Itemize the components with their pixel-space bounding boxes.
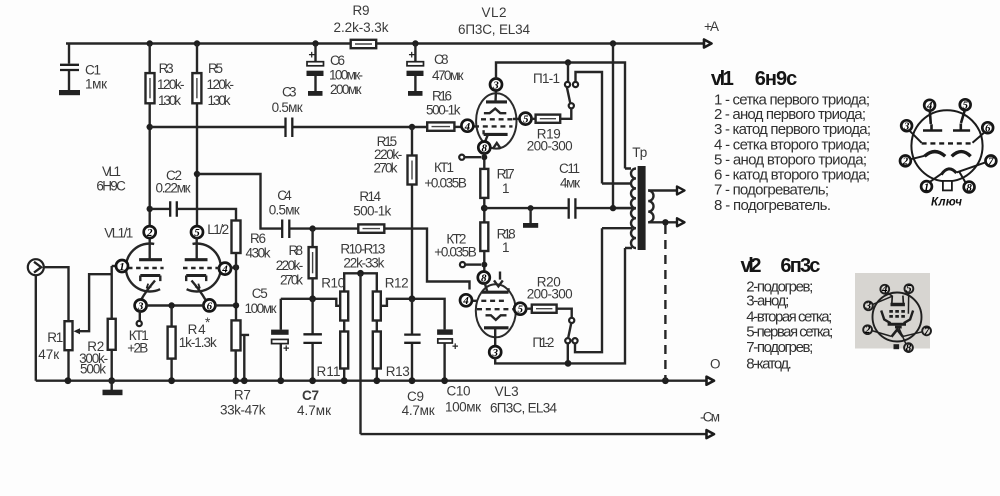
svg-text:130k: 130k (208, 93, 231, 108)
terminal -Cм (707, 430, 715, 438)
svg-text:4: 4 (462, 295, 469, 307)
VL2 cathode (484, 133, 508, 136)
svg-text:vl2: vl2 (741, 255, 762, 277)
svg-text:8: 8 (482, 142, 488, 154)
svg-text:vl1: vl1 (711, 68, 734, 90)
svg-text:7: 7 (988, 156, 994, 168)
svg-text:6Н9С: 6Н9С (96, 179, 126, 194)
pin 1 (VL1 grid 1) (116, 260, 128, 272)
input connector (28, 259, 44, 275)
node rail junction C7 (309, 377, 316, 384)
wire: R10-R11 junction (343, 321, 345, 332)
resistor R9 (351, 40, 377, 48)
node rail junction C9 (409, 377, 416, 384)
svg-text:6П3С, EL34: 6П3С, EL34 (458, 22, 530, 37)
svg-text:+: + (283, 343, 289, 355)
svg-text:270k: 270k (280, 273, 303, 288)
resistor R15 (411, 127, 413, 299)
svg-text:8-катод.: 8-катод. (746, 356, 792, 373)
VL1/2 anode (185, 258, 208, 261)
pin 2 (VL1 anode 1) (144, 226, 156, 238)
svg-text:120k-: 120k- (207, 77, 235, 92)
wire: anode tap to C4 (197, 174, 282, 229)
svg-text:1мк: 1мк (85, 77, 107, 92)
node: junction C8 top (412, 40, 418, 46)
node: junction R3 top (147, 40, 153, 46)
socket internals (923, 111, 942, 131)
VL3 heater (494, 272, 503, 287)
wire: C2 to R6 (177, 209, 236, 221)
node rail junction R7 (232, 377, 239, 384)
wire: pin4 to R6 column (231, 266, 236, 268)
svg-text:6: 6 (207, 300, 213, 312)
capacitor C8 (electrolytic) (414, 44, 416, 92)
svg-text:4мк: 4мк (560, 176, 580, 191)
pin 3 (VL3 anode) (489, 346, 501, 358)
socket pin 5 (960, 99, 971, 110)
svg-text:3: 3 (491, 347, 498, 359)
svg-text:500k: 500k (80, 362, 106, 377)
svg-text:R17: R17 (497, 167, 515, 182)
svg-text:Тр: Тр (632, 145, 647, 160)
VL3 control grid (473, 300, 507, 302)
test point KT2 (481, 262, 487, 268)
wire: secondary output bottom (648, 221, 677, 223)
resistor R16 (427, 122, 454, 130)
resistor R13 (373, 332, 381, 369)
resistor R14 (358, 224, 384, 232)
pin 4 (VL2 grid) (461, 120, 473, 132)
svg-text:R8: R8 (289, 243, 304, 258)
node rail junction C5 (277, 377, 284, 384)
svg-text:6п3с: 6п3с (780, 255, 820, 277)
node rail junction R4 (168, 377, 175, 384)
wire: input to R1 (44, 267, 69, 321)
svg-text:3: 3 (137, 300, 144, 312)
pin 8 (VL3 cathode) (478, 272, 490, 284)
node: junction R15 top (409, 124, 415, 130)
svg-text:*: * (205, 315, 211, 330)
socket diagram 6п3с (855, 273, 930, 349)
capacitor C6 (electrolytic) (314, 44, 316, 92)
svg-text:47к: 47к (38, 347, 59, 362)
svg-text:C7: C7 (302, 388, 319, 403)
node: junction П1-1 tap (565, 59, 571, 65)
VL1/1 grid (128, 267, 164, 269)
pin 5 (VL3 screen) (514, 303, 526, 315)
svg-text:R1: R1 (47, 330, 63, 345)
svg-text:КТ1: КТ1 (434, 160, 454, 175)
svg-text:C1: C1 (85, 63, 101, 78)
svg-text:O: O (710, 357, 721, 372)
svg-text:R5: R5 (208, 61, 223, 76)
socket2 connection leads (887, 293, 893, 296)
svg-text:-См: -См (700, 410, 720, 425)
svg-text:200-300: 200-300 (527, 139, 573, 154)
svg-text:4: 4 (221, 264, 228, 276)
svg-text:+: + (309, 50, 315, 62)
transformer core (638, 166, 646, 250)
svg-text:+A: +A (704, 19, 719, 34)
ground (below C1) (59, 90, 80, 95)
svg-text:100мк-: 100мк- (329, 68, 363, 83)
svg-text:R10: R10 (321, 276, 345, 291)
socket2 cathode (888, 323, 906, 326)
node: junction +A to primary center tap (610, 40, 616, 46)
svg-text:2.2k-3.3k: 2.2k-3.3k (334, 20, 389, 35)
transformer secondary (648, 191, 653, 223)
svg-text:33k-47k: 33k-47k (220, 403, 266, 418)
wire: pin3 to pin6 cathode bus (146, 304, 204, 306)
socket diagram 6н9с (900, 99, 996, 194)
wire: -Cм bias row (361, 433, 707, 435)
socket2 grids (889, 310, 905, 313)
socket2 anode (891, 303, 905, 307)
capacitor C4 (282, 220, 289, 239)
capacitor C11 (569, 198, 576, 219)
socket2 beam plates (881, 311, 890, 324)
wire: input sleeve to common rail (35, 275, 37, 381)
VL3 cathode (482, 291, 509, 294)
VL2 anode (486, 100, 507, 103)
svg-text:4: 4 (926, 100, 933, 112)
svg-text:1k-1.3k: 1k-1.3k (179, 335, 217, 350)
capacitor C3 (286, 118, 293, 138)
wire: secondary output top (648, 189, 677, 191)
switch П1-1 (567, 63, 569, 82)
svg-text:+: + (452, 341, 458, 353)
VL2 control grid (474, 125, 513, 127)
wire: R5 column down to VL1 pin5 (196, 44, 198, 227)
svg-text:VL2: VL2 (482, 5, 507, 20)
svg-text:R12: R12 (385, 276, 409, 291)
svg-text:8 - подогреватель.: 8 - подогреватель. (714, 197, 831, 214)
node: junction bias feed (357, 270, 364, 277)
VL2 suppressor grid (484, 109, 506, 114)
VL2 screen grid (481, 118, 513, 120)
wire: bias node row (right) (381, 299, 445, 330)
svg-text:430k: 430k (246, 246, 271, 261)
svg-text:4.7мк: 4.7мк (402, 403, 435, 418)
wire: +A top supply rail (66, 42, 704, 44)
svg-text:8: 8 (966, 182, 972, 194)
svg-text:100мк: 100мк (445, 400, 481, 415)
node: junction R8/C7/C5 (309, 295, 316, 302)
svg-text:5-первая сетка;: 5-первая сетка; (746, 324, 833, 341)
VL1/1 anode (139, 258, 162, 261)
svg-text:C8: C8 (434, 52, 449, 67)
triode VL1/1 envelope (126, 244, 160, 292)
wire: VL2 cathode to R17 (483, 153, 485, 169)
svg-text:L1/2: L1/2 (207, 222, 229, 237)
wire: R2 top to VL1 pin1 (112, 265, 117, 267)
svg-text:1: 1 (924, 181, 930, 193)
svg-text:8: 8 (906, 342, 912, 354)
svg-text:C3: C3 (282, 85, 297, 100)
node rail junction R7 tap (241, 377, 248, 384)
node: junction R8/C4/R14 (309, 225, 315, 231)
svg-text:500-1k: 500-1k (353, 204, 391, 219)
svg-text:+0.035В: +0.035В (424, 176, 467, 191)
resistor R20 (526, 309, 572, 318)
pin 5 (VL1 anode 2) (191, 226, 203, 238)
node rail junction C10 (441, 377, 448, 384)
svg-text:1: 1 (502, 240, 510, 255)
socket2 key (894, 344, 900, 349)
capacitor C5 (electrolytic) (280, 299, 282, 381)
svg-text:130k: 130k (158, 93, 181, 108)
VL3 screen grid (477, 308, 515, 310)
svg-text:3-анод;: 3-анод; (746, 293, 789, 310)
svg-text:1: 1 (119, 261, 125, 273)
svg-text:5: 5 (194, 227, 200, 239)
svg-text:П1-1: П1-1 (533, 71, 560, 86)
resistor R17 (480, 169, 488, 198)
svg-text:220k-: 220k- (276, 258, 304, 273)
pin 4 (VL3 grid) (460, 294, 472, 306)
svg-text:R3: R3 (159, 61, 174, 76)
svg-text:8: 8 (481, 272, 487, 284)
svg-text:7: 7 (924, 325, 930, 337)
node: junction C6 top (312, 40, 318, 46)
resistor R7 with ground tap (232, 320, 241, 350)
socket2 pin 7 (922, 327, 931, 336)
VL1/1 cathode lead (141, 281, 155, 300)
svg-text:R6: R6 (250, 231, 266, 246)
svg-text:+: + (409, 50, 415, 62)
svg-text:R7: R7 (234, 388, 251, 403)
svg-text:3: 3 (903, 121, 910, 133)
socket key tab (943, 181, 952, 191)
wire: VL2 anode up and over to transformer (496, 63, 625, 169)
svg-text:VL1/1: VL1/1 (104, 226, 133, 241)
wire: bias node row (left) (281, 299, 340, 306)
node: junction R17/R18/C11 (481, 205, 488, 212)
tube VL2 envelope (476, 93, 516, 148)
svg-text:500-1k: 500-1k (426, 103, 461, 118)
socket2 heater (891, 330, 903, 337)
socket2 pin 4 (880, 285, 889, 294)
VL1/2 cathode (186, 274, 206, 277)
socket pin 6 (982, 122, 993, 133)
svg-text:4.7мк: 4.7мк (297, 403, 331, 418)
svg-text:2: 2 (864, 324, 871, 336)
resistor R19 (531, 108, 571, 118)
node: junction R5 top (194, 40, 200, 46)
ground (below C8) (408, 91, 423, 96)
resistor R8 (311, 229, 313, 299)
node rail junction secondary common (662, 377, 669, 384)
VL1/2 cathode lead (192, 281, 206, 300)
svg-text:2: 2 (902, 156, 909, 168)
svg-text:3 - катод первого триода;: 3 - катод первого триода; (714, 121, 871, 138)
resistor R2 (110, 266, 112, 381)
svg-text:6н9с: 6н9с (755, 68, 798, 90)
capacitor C1 (68, 44, 70, 91)
socket pin 4 (924, 100, 935, 111)
svg-text:100мк: 100мк (245, 301, 277, 316)
svg-text:Ключ: Ключ (931, 197, 962, 209)
wire: bias line down to -Cm row (359, 273, 361, 434)
pin 4 (VL1 grid 2) (219, 263, 231, 275)
svg-text:22k-33k: 22k-33k (343, 256, 384, 271)
socket2 pin 3 (864, 301, 873, 310)
socket pin 3 (901, 120, 912, 131)
wire: VL3 anode row to transformer (495, 248, 625, 363)
wire: R3 column down to VL1 pin2 (148, 44, 150, 227)
capacitor C2 (150, 208, 171, 210)
socket2 pin 2 (863, 325, 872, 334)
VL1/2 grid (183, 267, 219, 269)
socket2 pin 5 (905, 284, 914, 293)
socket pin 7 (986, 156, 997, 167)
svg-text:1: 1 (502, 181, 510, 196)
socket2 pin 8 (904, 343, 913, 352)
svg-text:C9: C9 (407, 389, 424, 404)
svg-text:+0.035В: +0.035В (434, 245, 477, 260)
capacitor C9 (411, 299, 413, 381)
socket pin 2 (900, 156, 911, 167)
svg-text:6П3С, EL34: 6П3С, EL34 (490, 401, 557, 416)
svg-text:VL1: VL1 (102, 164, 121, 179)
svg-text:200-300: 200-300 (527, 287, 573, 302)
wire: R10/R12 top bridge (344, 273, 377, 291)
svg-text:470мк: 470мк (432, 68, 464, 83)
ground (below C6) (308, 91, 323, 96)
node: junction R15/C9 (409, 295, 416, 302)
capacitor C10 (electrolytic) (437, 329, 453, 334)
svg-text:C11: C11 (559, 161, 580, 176)
svg-text:270k: 270k (374, 161, 398, 176)
tube VL3 envelope (476, 284, 516, 337)
svg-text:+2В: +2В (127, 341, 148, 356)
svg-text:200мк: 200мк (330, 82, 362, 97)
svg-text:C6: C6 (330, 53, 345, 68)
svg-text:R13: R13 (386, 364, 410, 379)
svg-text:5: 5 (523, 114, 529, 126)
wire: R6 to R7 column (235, 253, 237, 320)
resistor R5 (192, 73, 201, 103)
wire: pin6 to cathode column (215, 304, 236, 306)
transformer Tp primary (631, 169, 636, 249)
test point KT1 (+2B) (139, 311, 141, 321)
svg-text:R10-R13: R10-R13 (340, 242, 385, 257)
svg-text:2: 2 (146, 227, 153, 239)
wire: common rail (0) (36, 380, 707, 382)
resistor R3 (146, 73, 155, 103)
svg-text:7-подогрев;: 7-подогрев; (746, 339, 813, 356)
svg-text:120k-: 120k- (157, 77, 185, 92)
resistor R18 (480, 222, 488, 251)
svg-text:R16: R16 (432, 89, 452, 104)
svg-text:7 - подогреватель;: 7 - подогреватель; (714, 182, 829, 199)
svg-text:3: 3 (865, 300, 872, 312)
switch П1-2 (569, 318, 574, 323)
socket pin 1 (921, 181, 932, 192)
resistor R12 (373, 292, 381, 321)
resistor R4 (170, 306, 172, 381)
wire: cathode junction to C11 (484, 207, 567, 209)
VL2 heater (493, 143, 501, 149)
node: junction grid rail at R3 column (147, 124, 153, 130)
terminal O (707, 377, 715, 385)
wire: secondary common (dashed) (664, 225, 666, 381)
svg-text:П1-2: П1-2 (532, 335, 554, 350)
wire: R14 to VL3 grid (L-path) (384, 229, 469, 290)
svg-text:R14: R14 (359, 189, 381, 204)
socket pin 8 (964, 182, 975, 193)
pin 3 (VL1 cathode 1) (135, 300, 147, 312)
triode VL1/2 envelope (187, 244, 221, 292)
svg-text:6: 6 (985, 123, 991, 135)
node: junction C2 tap (147, 206, 153, 212)
pin 8 (VL2 cathode) (478, 142, 490, 154)
wire: R12-R13 junction (376, 321, 378, 332)
node rail junction R13 (373, 377, 380, 384)
pin 6 (VL1 cathode 2) (203, 299, 215, 311)
pin 5 (VL2 screen) (520, 113, 532, 125)
node: junction second-triode anode tap (194, 171, 200, 177)
svg-text:0.22мк: 0.22мк (156, 181, 191, 196)
wire: C4 to R14 (289, 227, 358, 229)
svg-text:3: 3 (492, 79, 499, 91)
svg-text:5: 5 (517, 304, 523, 316)
terminal +A (704, 40, 712, 48)
svg-text:0.5мк: 0.5мк (269, 203, 300, 218)
svg-text:5: 5 (962, 100, 968, 112)
svg-text:C10: C10 (447, 384, 471, 399)
potentiometer R1 (65, 321, 73, 350)
VL3 anode (484, 326, 509, 329)
svg-text:C4: C4 (277, 188, 292, 203)
node rail junction R1 (65, 377, 72, 384)
ground (below R2) (108, 377, 115, 384)
node rail junction R11 (341, 377, 348, 384)
svg-text:C5: C5 (252, 286, 268, 301)
test point KT1 (481, 154, 487, 160)
wire: R1 wiper to R2/grid (77, 274, 112, 331)
svg-text:4: 4 (881, 284, 888, 296)
svg-text:R9: R9 (353, 3, 370, 18)
svg-text:4: 4 (464, 121, 471, 133)
VL1/1 cathode (140, 274, 160, 277)
capacitor C7 (311, 299, 313, 381)
resistor R6 (232, 221, 241, 254)
svg-text:0.5мк: 0.5мк (272, 100, 303, 115)
resistor R11 (340, 332, 348, 369)
svg-text:R11: R11 (317, 364, 341, 379)
VL3 suppressor grid (486, 315, 507, 320)
wire: VL2 grid feed rail y=127 (150, 126, 428, 128)
svg-text:VL3: VL3 (495, 384, 519, 399)
resistor R10 (340, 292, 348, 321)
pin 3 (VL2 anode) (490, 79, 502, 91)
ground (cathode return) (528, 205, 534, 211)
